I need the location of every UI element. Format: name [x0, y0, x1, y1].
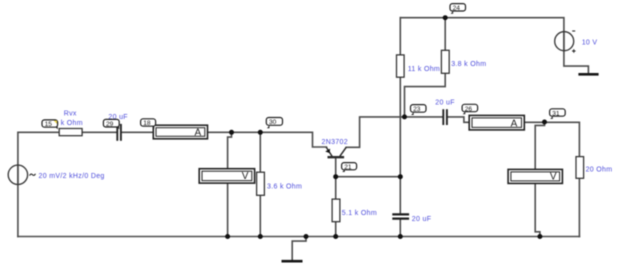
- resistor R6 20 Ohm body: [576, 157, 584, 179]
- transistor Q1 emitter arrow: [325, 149, 330, 154]
- wire A2 to node31 to 20ohm: [524, 122, 579, 156]
- wire C3 to rail: [399, 220, 401, 237]
- AC source V1in circle: [8, 165, 27, 184]
- svg-text:20 mV/2 kHz/0 Deg: 20 mV/2 kHz/0 Deg: [39, 173, 105, 180]
- wire 3.8k bottom L to node23: [405, 73, 446, 117]
- wire node21 to R5: [335, 177, 337, 199]
- node label 26: [462, 104, 478, 114]
- junction V1 tap dot: [229, 130, 234, 135]
- wire 3.8k branch top: [444, 18, 446, 51]
- svg-text:24: 24: [453, 5, 461, 12]
- wire node21 row: [336, 176, 401, 178]
- wire ground jog: [292, 237, 306, 261]
- svg-text:20 Ohm: 20 Ohm: [586, 167, 613, 174]
- wire V1 top branch: [228, 132, 232, 168]
- capacitor C1 plates: [117, 124, 121, 141]
- resistor R1 Rvx body: [59, 129, 82, 136]
- svg-text:20 uF: 20 uF: [412, 216, 432, 223]
- junction rail C3 dot: [398, 234, 403, 239]
- ammeter A2: [469, 115, 524, 129]
- wire A1 to transistor emitter: [208, 132, 327, 147]
- node label 18: [141, 119, 156, 129]
- svg-text:Rvx: Rvx: [64, 110, 77, 117]
- node label 31: [550, 109, 566, 119]
- junction node23 dot: [402, 114, 407, 119]
- resistor R4 3.8k body: [441, 50, 449, 73]
- wire input source-top to R1: [18, 132, 59, 184]
- svg-text:2N3702: 2N3702: [322, 139, 348, 146]
- junction node21 dot: [333, 174, 338, 179]
- DC source plus sign: [572, 49, 576, 53]
- AC source tilde: [30, 174, 36, 176]
- ammeter A1: [153, 125, 207, 139]
- ground symbol middle: [282, 260, 303, 263]
- junction rail V2 dot: [537, 234, 542, 239]
- wire R5 to rail: [335, 222, 337, 237]
- svg-text:5.1 k Ohm: 5.1 k Ohm: [342, 210, 377, 217]
- svg-text:A: A: [511, 119, 518, 130]
- svg-text:29: 29: [106, 121, 114, 128]
- svg-text:k Ohm: k Ohm: [61, 120, 83, 127]
- wire top rail: [400, 18, 564, 51]
- wire 11k top lead: [399, 18, 401, 55]
- svg-text:A: A: [195, 128, 202, 139]
- junction rail R5 dot: [333, 234, 338, 239]
- wire bottom rail: [18, 236, 580, 238]
- wire R1 to C1: [82, 131, 116, 133]
- svg-text:V: V: [550, 172, 557, 183]
- wire C1 to A1: [122, 131, 154, 133]
- wire 11k bottom through crossing to C3: [399, 77, 401, 213]
- capacitor C3 bypass plates: [392, 214, 409, 218]
- node label 29: [103, 119, 119, 129]
- transistor Q1 2N3702: [326, 147, 346, 157]
- wire 20ohm to rail: [578, 178, 580, 236]
- svg-text:21: 21: [344, 164, 352, 171]
- wire V2 top branch: [535, 122, 544, 169]
- wire source bottom to rail: [17, 165, 19, 237]
- svg-text:23: 23: [413, 106, 421, 113]
- voltmeter V1: [199, 169, 254, 183]
- node label 21: [342, 163, 357, 172]
- junction rail V1 dot: [225, 234, 230, 239]
- DC source 10V circle: [555, 32, 574, 51]
- svg-text:15: 15: [45, 121, 53, 128]
- node label 24: [450, 4, 466, 14]
- junction node21-bypass dot: [398, 174, 403, 179]
- svg-text:11 k Ohm: 11 k Ohm: [408, 66, 440, 73]
- svg-text:20 uF: 20 uF: [435, 100, 455, 107]
- resistor R3 11k body: [397, 55, 405, 77]
- svg-text:V: V: [242, 171, 249, 182]
- junction node30 dot: [258, 130, 263, 135]
- svg-text:18: 18: [143, 120, 151, 127]
- junction node31 dot: [542, 120, 547, 125]
- node label 23: [411, 105, 427, 115]
- ground symbol right: [578, 73, 598, 76]
- wire V1 bottom branch: [227, 183, 229, 236]
- resistor R5 5.1k body: [332, 199, 340, 222]
- resistor R2 3.6k body: [257, 172, 265, 195]
- junction rail R2 dot: [258, 234, 263, 239]
- svg-text:10 V: 10 V: [582, 39, 598, 46]
- capacitor C2 output plates: [443, 109, 447, 125]
- node label 30: [266, 118, 282, 129]
- svg-text:30: 30: [269, 119, 277, 126]
- wire V2 bottom branch: [535, 183, 540, 236]
- svg-text:3.6 k Ohm: 3.6 k Ohm: [267, 184, 302, 191]
- wire collector riser and node23 row: [346, 117, 442, 147]
- voltmeter V2: [508, 169, 562, 183]
- wire R2 bottom to rail: [259, 195, 261, 236]
- wire node30 branch to R2 top: [259, 132, 261, 172]
- svg-text:31: 31: [552, 110, 560, 117]
- node label 15: [42, 120, 58, 130]
- wire C2 to A2 jog: [448, 117, 469, 122]
- DC source minus sign: [572, 30, 575, 32]
- svg-text:3.8 k Ohm: 3.8 k Ohm: [451, 61, 486, 68]
- junction node24 dot: [443, 15, 448, 20]
- junction rail ground dot: [304, 234, 309, 239]
- wire base to node21: [335, 157, 337, 177]
- wire 10V bottom to ground: [564, 31, 589, 73]
- svg-text:26: 26: [465, 106, 473, 113]
